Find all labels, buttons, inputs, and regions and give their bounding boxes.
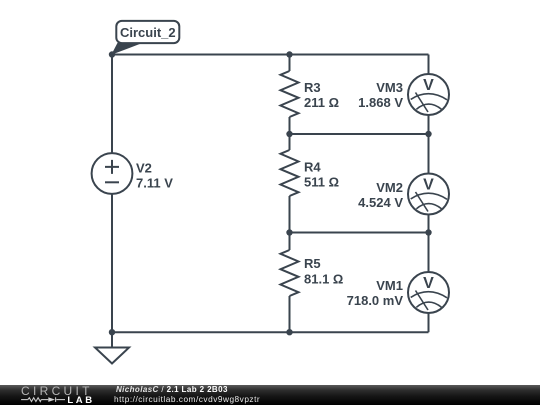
- svg-text:81.1 Ω: 81.1 Ω: [304, 272, 343, 287]
- svg-text:Circuit_2: Circuit_2: [120, 25, 176, 40]
- svg-text:211 Ω: 211 Ω: [304, 95, 339, 110]
- svg-text:VM1: VM1: [376, 278, 403, 293]
- svg-text:511 Ω: 511 Ω: [304, 175, 339, 190]
- svg-text:R3: R3: [304, 80, 321, 95]
- svg-text:VM2: VM2: [376, 180, 403, 195]
- svg-text:VM3: VM3: [376, 80, 403, 95]
- svg-text:R5: R5: [304, 256, 321, 271]
- svg-text:V: V: [423, 77, 434, 94]
- svg-text:4.524 V: 4.524 V: [358, 195, 403, 210]
- svg-text:7.11 V: 7.11 V: [136, 176, 173, 191]
- svg-text:R4: R4: [304, 160, 321, 175]
- svg-text:V2: V2: [136, 161, 152, 176]
- svg-text:718.0 mV: 718.0 mV: [347, 293, 404, 308]
- svg-text:V: V: [423, 275, 434, 292]
- svg-text:1.868 V: 1.868 V: [358, 95, 403, 110]
- svg-text:V: V: [423, 177, 434, 194]
